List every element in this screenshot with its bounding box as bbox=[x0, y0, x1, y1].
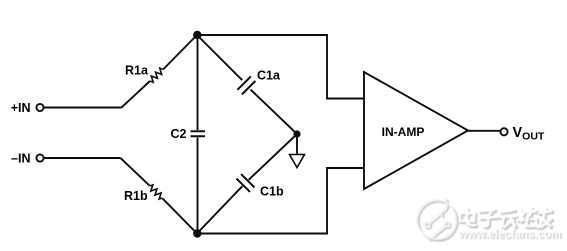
wire -IN horizontal bbox=[44, 157, 121, 159]
svg-text:IN-AMP: IN-AMP bbox=[382, 125, 425, 139]
resistor R1a bbox=[148, 67, 165, 83]
svg-text:C1b: C1b bbox=[260, 185, 284, 199]
wire R1a diagonal lower bbox=[122, 81, 151, 108]
terminal -IN circle bbox=[36, 154, 43, 161]
svg-text:+IN: +IN bbox=[11, 101, 31, 115]
wire R1b diagonal upper bbox=[121, 158, 150, 186]
wire C1b diagonal lower bbox=[197, 186, 242, 233]
watermark logo circle bbox=[417, 199, 562, 242]
ground bbox=[290, 155, 305, 168]
capacitor C2 bbox=[191, 131, 206, 136]
capacitor C1b bbox=[237, 174, 255, 192]
capacitor C1a bbox=[237, 76, 255, 94]
op-amp IN-AMP triangle bbox=[364, 72, 468, 189]
terminal +IN circle bbox=[36, 104, 43, 111]
svg-text:C1a: C1a bbox=[257, 69, 281, 83]
wire C2 vertical top bbox=[197, 35, 199, 130]
svg-text:www.elecfans.com: www.elecfans.com bbox=[458, 229, 561, 241]
wire ground stub bbox=[296, 134, 298, 155]
watermark chinese text bbox=[461, 209, 552, 228]
node top junction bbox=[193, 31, 201, 39]
svg-text:VOUT: VOUT bbox=[513, 125, 545, 143]
node right junction bbox=[293, 130, 300, 137]
wire R1a diagonal upper bbox=[163, 35, 197, 70]
wire bottom node to amp bbox=[197, 168, 364, 234]
svg-text:C2: C2 bbox=[171, 127, 187, 141]
wire output bbox=[468, 130, 500, 132]
main schematic, black bbox=[44, 35, 501, 234]
wire C1b diagonal upper bbox=[249, 134, 297, 180]
wire C1a diagonal upper bbox=[197, 35, 242, 80]
svg-text:R1b: R1b bbox=[124, 189, 148, 203]
wire C2 vertical bottom bbox=[197, 138, 199, 234]
wire top node to amp bbox=[197, 35, 364, 99]
svg-text:–IN: –IN bbox=[11, 152, 30, 166]
resistor R1b bbox=[148, 184, 164, 200]
svg-text:R1a: R1a bbox=[125, 64, 149, 78]
wire R1b diagonal lower bbox=[162, 198, 197, 233]
wire C1a diagonal lower bbox=[251, 90, 297, 134]
node bottom junction bbox=[193, 229, 201, 237]
terminal VOUT circle bbox=[500, 128, 507, 135]
wire +IN horizontal bbox=[44, 107, 122, 109]
